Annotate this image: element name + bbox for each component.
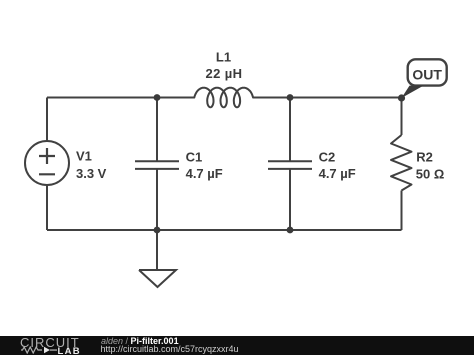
svg-text:4.7 µF: 4.7 µF (319, 166, 356, 181)
svg-text:R2: R2 (416, 149, 433, 164)
svg-text:C1: C1 (186, 150, 203, 165)
svg-text:3.3 V: 3.3 V (76, 166, 107, 181)
svg-text:V1: V1 (76, 148, 92, 163)
svg-text:50 Ω: 50 Ω (416, 166, 445, 181)
svg-text:OUT: OUT (412, 66, 442, 82)
svg-text:L1: L1 (216, 50, 231, 65)
svg-text:C2: C2 (319, 150, 336, 165)
svg-text:22 µH: 22 µH (206, 66, 243, 81)
svg-text:4.7 µF: 4.7 µF (186, 166, 223, 181)
